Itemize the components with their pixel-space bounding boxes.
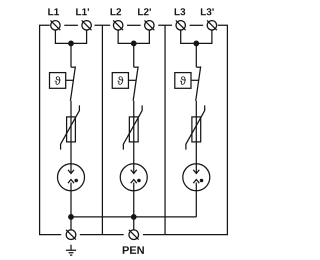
wire: switch to varistor module 3 [195, 101, 197, 117]
node junction dot module 3 [193, 41, 199, 47]
label PEN [123, 246, 144, 254]
spark gap (gas discharge tube) module 2 [120, 164, 147, 191]
label L1' [76, 8, 89, 15]
actuation link sensor-to-switch module 3 [191, 79, 199, 81]
wire: bus to PEN terminal [133, 217, 135, 230]
earth terminal [66, 230, 76, 240]
boundary divider T between L2' and L3 [158, 25, 172, 234]
ground symbol [66, 245, 76, 255]
wire: varistor to spark gap module 1 [70, 142, 72, 174]
thermal disconnector switch contact module 1 [71, 66, 75, 68]
wire: node to disconnector module 3 [195, 43, 197, 67]
terminal L3 [176, 20, 186, 30]
actuation link sensor-to-switch module 2 [128, 79, 136, 81]
terminal L3' [207, 20, 217, 30]
wire: node to disconnector module 2 [133, 43, 135, 67]
thermal sensor box ϑ module 2 [112, 73, 128, 89]
thermal disconnector switch contact module 3 [196, 66, 200, 68]
frame bottom segment between earth and PEN terminals [80, 234, 124, 236]
terminal L1' [82, 20, 92, 30]
wire: L3/L3' drop to common node [181, 30, 212, 43]
label L3' [201, 8, 214, 15]
node junction dot module 2 [131, 41, 137, 47]
boundary divider T between L1' and L2 [95, 25, 111, 234]
wire: switch to varistor module 1 [70, 101, 72, 117]
thermal sensor box ϑ module 1 [50, 73, 66, 89]
varistor module 2 [123, 105, 142, 149]
label L2 [111, 8, 122, 15]
wire: switch to varistor module 2 [133, 101, 135, 117]
frame right boundary [143, 25, 227, 234]
wire: spark gap to bus module 3 [195, 183, 197, 217]
node junction dot on PEN bus (module 2) [131, 214, 137, 220]
label L2' [138, 8, 151, 15]
wire: L1/L1' drop to common node [55, 30, 86, 43]
spark gap (gas discharge tube) module 1 [58, 164, 85, 191]
thermal disconnector switch contact module 2 [134, 66, 138, 68]
terminal L2 [113, 20, 123, 30]
PEN bus wire (horizontal) [71, 216, 196, 218]
wire: spark gap to bus module 2 [133, 183, 135, 217]
terminal L1 [51, 20, 61, 30]
varistor module 3 [186, 105, 205, 149]
wire: spark gap to bus module 1 [70, 183, 72, 217]
boundary dash between L1 and L1' [64, 24, 78, 26]
thermal disconnector switch blade module 3 [196, 66, 201, 101]
boundary dash between L3 and L3' [190, 24, 204, 26]
wire: varistor to spark gap module 3 [195, 142, 197, 174]
terminal L2' [144, 20, 154, 30]
node junction dot module 1 [68, 41, 74, 47]
thermal disconnector switch blade module 2 [133, 66, 138, 101]
thermal sensor box ϑ module 3 [175, 73, 191, 89]
frame left boundary [40, 25, 62, 234]
label L1 [48, 8, 59, 15]
node junction dot on PEN bus (module 1) [68, 214, 74, 220]
wire: node to disconnector module 1 [70, 43, 72, 67]
wire: bus to earth terminal [70, 217, 72, 230]
boundary dash between L2 and L2' [127, 24, 141, 26]
wire: varistor to spark gap module 2 [133, 142, 135, 174]
PEN terminal [129, 230, 139, 240]
spark gap (gas discharge tube) module 3 [183, 164, 210, 191]
thermal disconnector switch blade module 1 [70, 66, 75, 101]
label L3 [175, 8, 186, 15]
varistor module 1 [61, 105, 80, 149]
actuation link sensor-to-switch module 1 [66, 79, 74, 81]
wire: L2/L2' drop to common node [118, 30, 149, 43]
